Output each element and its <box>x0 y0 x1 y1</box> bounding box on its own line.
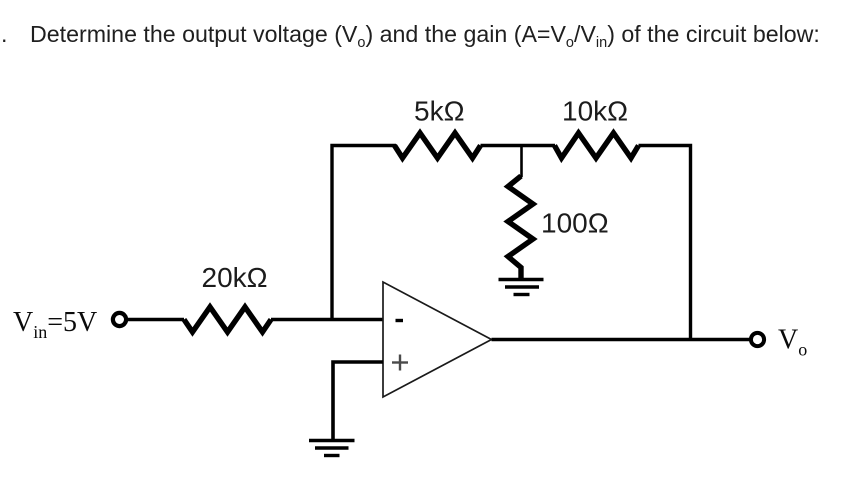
resistor 20k zigzag <box>184 307 271 332</box>
svg-text:10kΩ: 10kΩ <box>562 96 628 127</box>
resistor 100 ohm vertical zigzag <box>508 176 533 278</box>
wire 20k to inverting input <box>271 318 383 322</box>
svg-text:5kΩ: 5kΩ <box>414 96 465 127</box>
output terminal circle <box>751 333 764 346</box>
resistor 10k zigzag <box>555 133 639 158</box>
svg-text:Vo: Vo <box>778 325 807 360</box>
wire noninverting input to ground <box>333 362 383 439</box>
op-amp U1 triangle <box>383 282 492 397</box>
resistor 5k zigzag <box>395 133 481 158</box>
op-amp plus sign <box>392 355 408 371</box>
op-amp minus sign <box>396 319 404 322</box>
ground at noninverting input <box>309 441 355 456</box>
wire input to 20k <box>128 318 184 322</box>
wire top-right and right vertical to output <box>639 146 691 340</box>
ground under 100 ohm <box>499 280 544 295</box>
node junction stub to 100 ohm <box>520 146 523 178</box>
wire top-left feedback segment <box>332 146 396 320</box>
wire output <box>492 338 750 341</box>
svg-text:Vin=5V: Vin=5V <box>13 307 97 342</box>
svg-text:100Ω: 100Ω <box>541 208 609 239</box>
input terminal circle <box>113 313 126 326</box>
svg-text:.Determine the output voltage: .Determine the output voltage (Vo) and t… <box>1 21 820 51</box>
wire between 5k and 10k (node junction) <box>481 144 556 147</box>
svg-text:20kΩ: 20kΩ <box>202 262 268 293</box>
